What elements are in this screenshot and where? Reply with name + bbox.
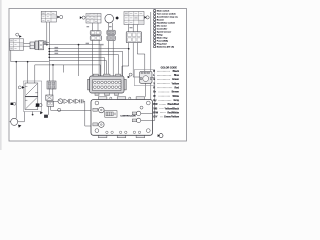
border frame — [9, 9, 187, 142]
connector pair below B — [90, 31, 102, 41]
svg-text:Y/B: Y/B — [153, 107, 157, 110]
terminal M2 — [132, 119, 136, 122]
legend ref diamond marker — [115, 16, 119, 20]
stub wire under enclosure — [32, 112, 34, 115]
svg-text:Accelerator stop sw.: Accelerator stop sw. — [157, 16, 179, 19]
page background — [0, 0, 195, 150]
charge receptacle circle — [11, 118, 18, 125]
svg-text:B/R: B/R — [153, 103, 157, 106]
wire: C block drops to connector D — [129, 25, 138, 32]
tow switch enclosure — [134, 70, 154, 86]
wire: run y48.7 — [49, 48, 128, 50]
junction dots — [15, 44, 129, 116]
wire: right loop to M terminal — [152, 78, 155, 121]
connector pins row 2 — [94, 86, 121, 89]
wire: L4 to resistor — [49, 89, 53, 95]
svg-text:Black/Red: Black/Red — [167, 103, 179, 106]
svg-text:Main relay: Main relay — [157, 38, 168, 40]
legend ref 15 black marker — [36, 103, 39, 106]
wire: diode chain to controller — [54, 101, 91, 126]
fuse circle in chain — [58, 99, 63, 104]
svg-text:Black: Black — [173, 70, 180, 73]
svg-text:Relay: Relay — [157, 35, 164, 37]
wire: run y54.4 — [49, 54, 118, 76]
color code table — [153, 66, 179, 118]
wire: charge circle horizontal — [10, 112, 25, 122]
svg-text:Plug lead: Plug lead — [157, 44, 167, 46]
wire: block A left drop — [46, 22, 48, 45]
legend ref marker bottom left — [18, 125, 21, 128]
scan edge artifact left — [0, 0, 2, 150]
wire: F/R riser 1 — [27, 62, 29, 83]
legend ref 5 marker — [57, 16, 59, 19]
wire: B stack drops — [93, 23, 100, 76]
legend ref 9 marker — [58, 108, 61, 111]
legend numbered list — [153, 9, 178, 48]
svg-text:Speed sensor: Speed sensor — [157, 32, 171, 34]
svg-text:Handlebar switch: Handlebar switch — [157, 22, 176, 25]
main switch chart (block C) — [124, 12, 144, 25]
svg-text:Br: Br — [153, 91, 156, 94]
svg-text:Turn sense switch: Turn sense switch — [157, 13, 177, 16]
wire: D drop 2 to tow switch — [133, 43, 139, 77]
svg-text:Blue: Blue — [174, 74, 180, 77]
svg-text:Yellow: Yellow — [172, 82, 180, 85]
svg-text:Yellow/Black: Yellow/Black — [165, 107, 180, 110]
wire: F/R riser 2 + run y64.9 — [35, 65, 101, 83]
main harness connector U1 — [88, 74, 127, 95]
controller bottom screw row — [106, 131, 141, 133]
svg-text:Buzzer: Buzzer — [157, 20, 164, 22]
legend ref 6 marker — [129, 73, 132, 76]
wire: run y60.5 — [49, 61, 106, 77]
svg-text:Fuse (30A): Fuse (30A) — [157, 40, 168, 43]
terminal top right — [140, 106, 143, 109]
wire: D drop 1 — [122, 43, 129, 76]
legend ref 4 marker with arrow — [16, 33, 19, 36]
svg-text:G/Y: G/Y — [153, 116, 158, 119]
diode 1 — [64, 99, 68, 103]
svg-text:White: White — [172, 95, 179, 98]
svg-text:Controller: Controller — [157, 28, 168, 31]
legend ref marker mid-left — [11, 103, 14, 105]
connector L4 — [47, 81, 56, 89]
wire: bottom run to controller — [51, 109, 91, 111]
wire: left block bottom drop — [11, 50, 49, 61]
wire: block A right drop — [48, 22, 50, 57]
legend ref 16 marker bottom right — [159, 134, 163, 138]
legend ref 1 marker — [144, 16, 146, 19]
diode 2 — [70, 99, 74, 103]
connector pins row 1 — [94, 81, 121, 84]
controller box — [91, 97, 153, 138]
terminal B+ — [93, 108, 98, 111]
wire: run y51.5 — [49, 52, 122, 77]
svg-text:Red: Red — [174, 87, 179, 90]
wire: gauge drops — [108, 23, 113, 76]
wire: stub x63.6 — [63, 65, 65, 73]
hour meter gauge — [105, 14, 114, 23]
capacitor bars — [81, 99, 83, 103]
svg-text:Batteries (6V x6): Batteries (6V x6) — [157, 46, 174, 49]
F/R contact upper — [25, 83, 38, 96]
svg-text:Red/White: Red/White — [167, 111, 179, 114]
resistor block L5 — [46, 95, 53, 100]
wire: long right vertical — [151, 12, 153, 113]
stop switch chart (block B) — [86, 14, 101, 24]
svg-text:CONTROLLER: CONTROLLER — [120, 116, 136, 118]
svg-text:R/W: R/W — [153, 111, 158, 114]
diode 3 — [76, 99, 80, 103]
svg-text:DC motor: DC motor — [157, 25, 167, 28]
connector D below main switch — [126, 32, 141, 43]
wire: D drop 3 to tow switch top — [137, 43, 145, 72]
terminal B- — [93, 123, 98, 126]
connector pair below gauge — [107, 30, 115, 40]
svg-text:B: B — [153, 70, 155, 73]
F/R contact lower — [25, 97, 38, 110]
controller top small screws — [110, 97, 131, 99]
svg-text:Brown: Brown — [172, 91, 180, 94]
svg-text:R: R — [153, 87, 155, 90]
wire: second small run y47.6 — [44, 41, 50, 43]
svg-text:Green: Green — [172, 78, 179, 81]
legend ref 3 marker — [80, 16, 82, 19]
svg-text:Main switch: Main switch — [157, 10, 170, 13]
wire: vertical x78.5 — [78, 45, 80, 76]
wire: main run y44.6 — [44, 45, 101, 76]
wires relay to small connector — [24, 43, 31, 46]
handlebar switch chart (block A) — [41, 11, 56, 22]
svg-text:Gray: Gray — [174, 99, 180, 102]
controller internal connector — [105, 111, 117, 118]
connector pair L3 — [35, 41, 44, 50]
legend ref marker on enclosure edge — [40, 111, 43, 114]
color code dotted leaders — [157, 71, 173, 117]
svg-text:Green/Yellow: Green/Yellow — [164, 116, 179, 119]
wire: tow switch to controller — [144, 83, 146, 97]
tow switch component — [140, 71, 152, 83]
controller corner screws — [95, 101, 150, 132]
forward/reverse switch enclosure — [24, 81, 42, 112]
terminal M1 — [132, 112, 136, 115]
svg-text:G: G — [153, 78, 155, 81]
wire: drop to charge circle — [15, 62, 17, 119]
wire color label marks — [44, 26, 133, 54]
small connector L2 — [30, 42, 34, 49]
legend ref 14 marker — [18, 86, 21, 89]
connector J1 — [44, 101, 53, 117]
wire: run y57.3 — [49, 57, 104, 76]
wire: connector L4 drops from runs — [49, 57, 53, 81]
left relay block — [10, 39, 24, 51]
